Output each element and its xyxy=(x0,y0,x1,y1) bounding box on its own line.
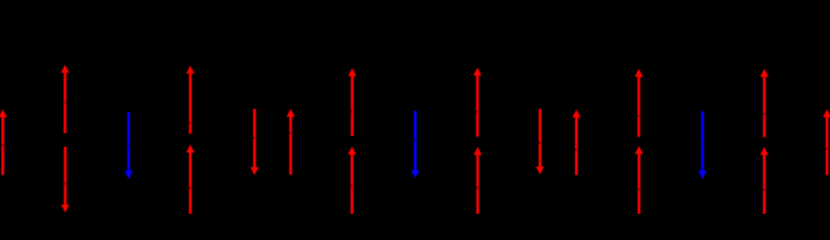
site 12 lower: red up arrow from bottom edge xyxy=(635,146,643,214)
site 13: blue down arrow xyxy=(698,111,706,178)
site 4 lower: red up arrow from bottom edge xyxy=(186,145,194,215)
site 10: short red down arrow xyxy=(536,109,544,175)
site 7 upper: tall red up arrow xyxy=(348,68,356,136)
site 7 lower: red up arrow from bottom edge xyxy=(348,147,356,215)
site 12 upper: tall red up arrow xyxy=(635,69,643,137)
site 3: blue down arrow xyxy=(124,112,132,179)
site 4 upper: tall red up arrow xyxy=(186,66,194,134)
site 14 upper: tall red up arrow xyxy=(760,69,768,138)
site 8: blue down arrow xyxy=(411,111,419,178)
site 2 upper: tall red up arrow xyxy=(61,65,69,134)
site 1: short red up arrow (clipped at left edge) xyxy=(0,109,7,175)
site 2 lower: tall red down arrow xyxy=(61,147,69,213)
site 5: short red down arrow xyxy=(250,109,258,175)
site 15: short red up arrow (clipped at right edge) xyxy=(823,109,830,175)
site 9 lower: red up arrow from bottom edge xyxy=(474,147,482,214)
site 14 lower: red up arrow from bottom edge xyxy=(760,147,768,214)
site 6: short red up arrow xyxy=(287,109,295,175)
site 9 upper: tall red up arrow xyxy=(473,68,481,137)
site 11: short red up arrow xyxy=(572,110,580,176)
